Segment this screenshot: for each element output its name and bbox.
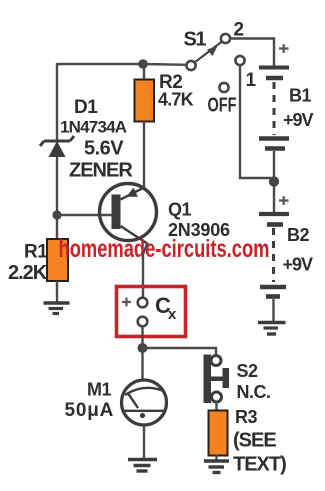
wire R3 to ground: [215, 455, 217, 460]
switch terminal 2: [221, 34, 230, 43]
transistor Q1 collector: [121, 226, 149, 244]
ground below R1: [44, 303, 70, 314]
resistor R2: [135, 80, 155, 122]
junction node top rail / R2: [138, 59, 148, 69]
wire node to S1 pivot: [143, 63, 187, 66]
label + of B1: [279, 44, 289, 53]
meter M1 needle: [128, 393, 139, 409]
svg-text:R3: R3: [235, 407, 257, 427]
svg-text:TEXT): TEXT): [233, 454, 286, 476]
wire node down to R2: [143, 64, 145, 80]
svg-text:B2: B2: [287, 225, 309, 245]
meter M1 chord line: [123, 410, 166, 412]
switch S1 arm with arrow: [195, 42, 223, 63]
svg-text:Q1: Q1: [168, 200, 192, 220]
wire junction to M1: [141, 348, 143, 380]
junction node B1/B2: [269, 176, 279, 186]
wire R1 to ground: [56, 281, 58, 303]
transistor Q1 emitter with arrow: [121, 188, 145, 200]
wire R2 to Q1 emitter: [143, 121, 145, 188]
wire left rail upper (down to zener cathode): [56, 63, 58, 140]
wire terminal 1 down to junction: [240, 65, 271, 178]
red highlight box around Cx: [117, 287, 186, 337]
meter M1 circle: [122, 380, 167, 425]
svg-text:2.2K: 2.2K: [8, 262, 48, 284]
label + of B2: [279, 196, 289, 205]
svg-text:S2: S2: [237, 361, 259, 381]
svg-text:4.7K: 4.7K: [158, 90, 194, 110]
wire base (node to Q1 base): [57, 214, 112, 216]
svg-text:1: 1: [246, 70, 257, 91]
meter M1 scale arc: [125, 388, 162, 395]
meter M1 pivot dot: [140, 413, 145, 418]
switch S1 pivot terminal: [186, 61, 195, 70]
svg-text:S1: S1: [184, 29, 207, 51]
svg-text:5.6V: 5.6V: [84, 138, 124, 160]
wire B2 to ground: [272, 299, 274, 322]
capacitor Cx top terminal: [138, 298, 148, 308]
wire collector down to Cx: [143, 243, 148, 298]
svg-text:1N4734A: 1N4734A: [60, 118, 127, 137]
svg-text:50μA: 50μA: [65, 400, 115, 421]
battery B2: [259, 214, 289, 297]
resistor R3: [209, 411, 228, 456]
svg-text:D1: D1: [74, 97, 98, 118]
ground below R3: [204, 461, 229, 473]
switch terminal 1: [235, 56, 244, 65]
svg-text:R1: R1: [24, 242, 48, 263]
wire junction to S2: [143, 348, 217, 356]
capacitor Cx bottom terminal: [138, 317, 148, 327]
switch S2 top terminal: [211, 356, 221, 366]
svg-text:OFF: OFF: [208, 95, 237, 117]
label Cx: [155, 293, 177, 323]
switch OFF terminal: [219, 83, 228, 92]
wire S2 to R3: [215, 402, 217, 411]
switch S2 bottom terminal: [212, 392, 222, 402]
svg-text:x: x: [168, 306, 177, 323]
wire M1 to ground: [143, 425, 145, 459]
wire Cx to junction: [141, 326, 143, 344]
ground below M1: [128, 460, 157, 472]
resistor R1: [47, 239, 68, 281]
label + of Cx: [122, 298, 131, 307]
svg-text:M1: M1: [87, 380, 111, 400]
transistor Q1 circle: [100, 184, 157, 241]
svg-text:(SEE: (SEE: [233, 430, 276, 452]
wire left rail lower (zener to R1): [56, 157, 58, 240]
svg-text:B1: B1: [289, 86, 311, 106]
svg-text:ZENER: ZENER: [69, 160, 133, 182]
junction node below Cx: [138, 343, 148, 353]
wire B1 to junction: [273, 151, 275, 212]
svg-text:N.C.: N.C.: [237, 382, 271, 402]
transistor Q1 base bar: [112, 195, 121, 230]
junction node at base wire: [52, 210, 61, 219]
switch S2 plunger button: [210, 368, 229, 388]
ground below B2: [258, 323, 286, 335]
zener diode D1 symbol: [40, 136, 74, 157]
svg-text:homemade-circuits.com: homemade-circuits.com: [59, 235, 270, 263]
wire terminal 2 to B1: [230, 39, 274, 67]
svg-text:+9V: +9V: [283, 255, 314, 275]
wire top-left horizontal (left rail to R2/S1 node): [57, 63, 143, 65]
svg-text:+9V: +9V: [283, 110, 314, 130]
switch S2 lever bar: [204, 355, 212, 404]
battery B1: [259, 68, 289, 149]
